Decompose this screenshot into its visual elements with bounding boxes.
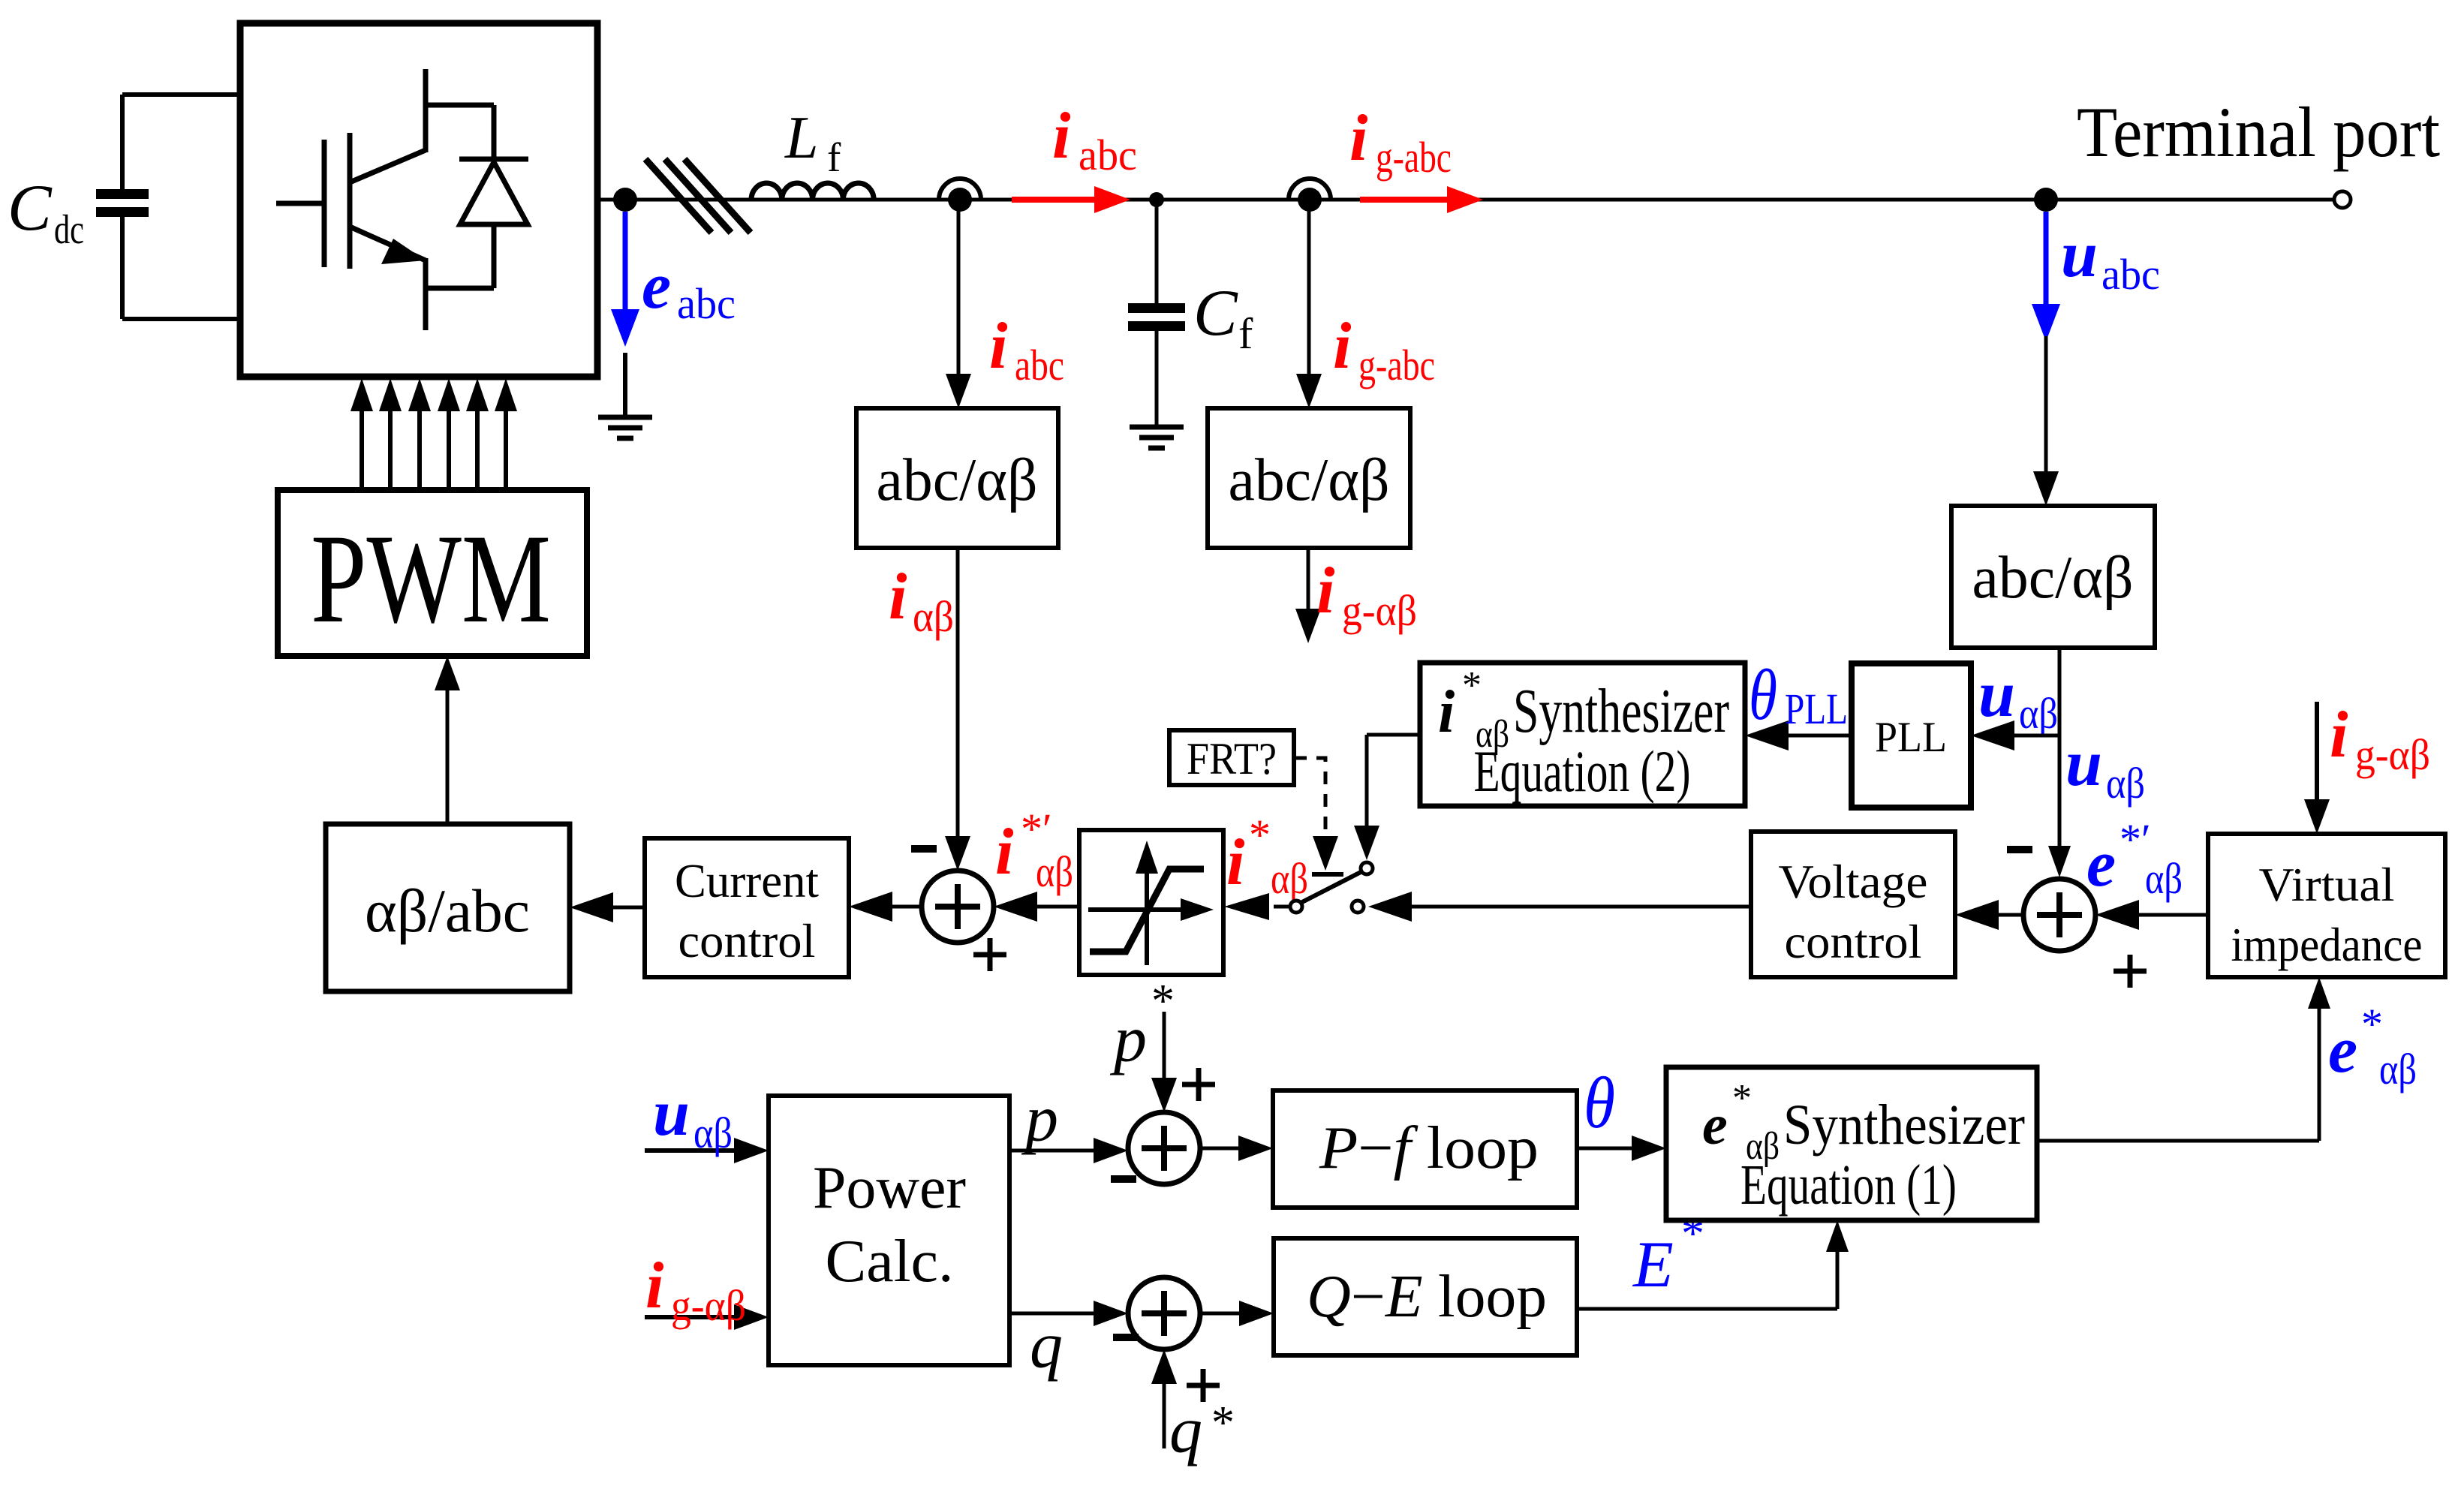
plus sign at p sum [1182, 1082, 1215, 1087]
svg-text:p: p [1109, 1003, 1147, 1076]
current sensor CT2 [1289, 179, 1331, 200]
svg-text:Calc.: Calc. [826, 1229, 954, 1295]
wire i_g-ab into Virtual impedance [2315, 702, 2319, 802]
six gate drive arrows [360, 408, 364, 490]
wire voltage sum to Voltage control [1996, 913, 2023, 917]
svg-text:e: e [1702, 1093, 1728, 1157]
svg-text:*: * [1681, 1208, 1704, 1259]
svg-text:αβ: αβ [1036, 847, 1073, 896]
wire u_abc down to abc/ab block #3 [2044, 336, 2048, 474]
wire Virtual impedance to voltage sum [2136, 913, 2208, 917]
wire E* to synthesizer (1) [1577, 1307, 1837, 1311]
svg-text:αβ: αβ [2145, 854, 2183, 903]
i_abc bus current arrow (red) [1012, 197, 1097, 203]
wire i_g-ab into Power Calc [645, 1315, 737, 1319]
svg-text:p: p [1021, 1083, 1058, 1156]
svg-text:e: e [2328, 1014, 2357, 1087]
wire p output to p sum [1009, 1149, 1097, 1153]
svg-text:P−f loop: P−f loop [1319, 1115, 1539, 1181]
svg-text:i: i [889, 561, 907, 633]
svg-text:abc: abc [2101, 250, 2160, 299]
svg-text:i: i [1438, 679, 1455, 745]
svg-text:g-αβ: g-αβ [1342, 586, 1417, 635]
svg-text:i: i [2330, 699, 2348, 772]
svg-text:PLL: PLL [1875, 714, 1947, 761]
block Power Calc. [769, 1096, 1009, 1365]
svg-text:i: i [1316, 555, 1335, 627]
svg-text:abc/αβ: abc/αβ [1229, 447, 1390, 513]
dashed FRT actuation line [1294, 758, 1325, 835]
plus sign at q sum [1187, 1383, 1220, 1388]
inductor Lf [751, 183, 874, 200]
capacitor Cf branch wire [1155, 200, 1159, 303]
terminal port open circle [2334, 191, 2351, 208]
wire limiter output to current sum [1034, 905, 1079, 909]
capacitor Cdc [122, 92, 240, 97]
block P-f loop [1273, 1090, 1577, 1208]
svg-text:impedance: impedance [2231, 919, 2423, 971]
switch lever [1301, 871, 1362, 903]
switch throw terminal right [1352, 901, 1364, 913]
svg-text:abc: abc [677, 279, 736, 328]
svg-text:u: u [2061, 218, 2098, 291]
i_g-abc bus current arrow (red) [1360, 197, 1450, 203]
block Current control [645, 838, 849, 977]
wire i_g-abc branch down from CT2 [1307, 200, 1311, 377]
svg-text:Equation (1): Equation (1) [1740, 1154, 1957, 1217]
block Virtual impedance [2208, 834, 2445, 977]
svg-text:u: u [653, 1077, 690, 1150]
wire Voltage control output to switch [1408, 905, 1751, 909]
wire theta to synthesizer (1) [1577, 1147, 1635, 1151]
wire u_ab into Power Calc [645, 1148, 737, 1153]
svg-text:Voltage: Voltage [1779, 856, 1928, 908]
svg-text:Synthesizer: Synthesizer [1783, 1093, 2025, 1157]
wire u_ab down to voltage sum [2058, 648, 2062, 846]
minus sign at q sum [1113, 1334, 1139, 1341]
svg-text:g-αβ: g-αβ [671, 1281, 746, 1330]
p summing junction [1128, 1112, 1200, 1184]
wire e*_ab to Virtual impedance [2037, 1139, 2319, 1143]
current summing junction [922, 871, 994, 943]
svg-text:Q−E loop: Q−E loop [1307, 1264, 1547, 1330]
wire q sum to Q-E loop [1200, 1312, 1242, 1316]
svg-text:*: * [1249, 811, 1271, 859]
svg-text:*: * [1732, 1077, 1752, 1120]
svg-text:αβ: αβ [1271, 854, 1308, 903]
svg-text:abc/αβ: abc/αβ [1972, 545, 2134, 611]
svg-text:abc: abc [1015, 341, 1064, 390]
block abc/ab #3 [1951, 506, 2155, 648]
junction node at Cf tap [1149, 192, 1164, 207]
voltage summing junction [2023, 879, 2095, 951]
svg-text:Synthesizer: Synthesizer [1513, 676, 1729, 746]
svg-text:g-αβ: g-αβ [2355, 730, 2430, 779]
svg-text:Terminal port: Terminal port [2077, 92, 2440, 172]
minus sign at voltage sum [2007, 846, 2032, 853]
plus sign at voltage sum [2114, 969, 2147, 974]
svg-text:*: * [1211, 1397, 1235, 1448]
FRT? block [1169, 730, 1294, 785]
wire PLL output to synthesizer (2) [1786, 734, 1852, 738]
svg-text:i: i [995, 816, 1014, 889]
wire i* synthesizer output down to switch [1367, 733, 1420, 737]
svg-text:FRT?: FRT? [1187, 734, 1277, 784]
block Voltage control [1751, 832, 1955, 977]
svg-text:i: i [1052, 100, 1071, 173]
svg-text:i: i [645, 1250, 664, 1322]
svg-text:*: * [2361, 1000, 2383, 1048]
svg-text:θ: θ [1584, 1063, 1615, 1144]
svg-text:E: E [1632, 1229, 1674, 1301]
svg-text:f: f [827, 134, 841, 180]
inverter bridge block [240, 23, 597, 377]
svg-text:f: f [1238, 309, 1253, 358]
svg-text:αβ: αβ [2019, 689, 2058, 738]
svg-text:PLL: PLL [1785, 684, 1848, 733]
switch actuator tick [1312, 872, 1343, 877]
q summing junction [1128, 1277, 1200, 1349]
block i*_ab Synthesizer Equation (2) [1420, 663, 1745, 806]
main ac bus wire [597, 198, 2334, 202]
block ab/abc [326, 824, 570, 991]
block abc/ab #2 [1208, 408, 1410, 548]
switch pole terminal left [1290, 901, 1302, 913]
svg-text:u: u [1978, 658, 2015, 731]
svg-text:αβ: αβ [2379, 1045, 2417, 1093]
svg-text:q: q [1169, 1394, 1202, 1467]
svg-text:i: i [1226, 826, 1245, 899]
q* reference arrow [1163, 1381, 1166, 1448]
svg-text:q: q [1030, 1310, 1063, 1382]
svg-text:PWM: PWM [311, 508, 551, 649]
three-phase slash marks [645, 159, 712, 233]
svg-text:*: * [1462, 664, 1482, 707]
wire ab/abc to PWM [446, 687, 450, 824]
ground symbol below e_abc [623, 353, 627, 417]
e_abc voltage arrow (blue) [623, 212, 628, 312]
block PLL [1852, 663, 1971, 808]
limiter block [1079, 830, 1223, 975]
svg-text:i: i [989, 310, 1008, 383]
svg-text:dc: dc [54, 206, 84, 252]
svg-text:Virtual: Virtual [2259, 859, 2395, 911]
svg-text:g-abc: g-abc [1358, 341, 1435, 390]
svg-text:αβ/abc: αβ/abc [365, 877, 530, 945]
svg-text:i: i [1333, 310, 1352, 383]
switch throw terminal top [1361, 862, 1373, 874]
wire p sum to P-f loop [1200, 1147, 1241, 1151]
wire i_abc branch down from CT1 [957, 200, 961, 377]
svg-text:L: L [784, 105, 819, 171]
minus sign at p sum [1111, 1175, 1136, 1183]
svg-text:Power: Power [813, 1155, 966, 1221]
wire switch pole to limiter [1274, 905, 1290, 909]
node after inverter output [613, 188, 637, 212]
svg-text:C: C [8, 172, 53, 245]
svg-text:abc/αβ: abc/αβ [877, 447, 1038, 513]
IGBT Q1 inside inverter [276, 201, 323, 206]
svg-text:control: control [1785, 916, 1922, 968]
u_abc voltage arrow (blue) [2044, 212, 2049, 307]
freewheeling diode D1 inside inverter [426, 103, 494, 108]
svg-text:abc: abc [1079, 131, 1137, 179]
svg-text:i: i [1349, 102, 1368, 175]
svg-text:αβ: αβ [913, 592, 954, 641]
wire q output to q sum [1009, 1312, 1097, 1316]
block abc/ab #1 [856, 408, 1058, 548]
PWM block [278, 490, 587, 656]
plus sign at current sum [973, 952, 1006, 958]
capacitor Cf [1128, 303, 1185, 313]
svg-text:u: u [2065, 727, 2102, 800]
saturation curve inside limiter [1145, 871, 1149, 965]
wire i_ab from block #1 to current sum [956, 548, 960, 839]
svg-text:αβ: αβ [693, 1108, 733, 1157]
block Q-E loop [1274, 1238, 1577, 1355]
svg-text:C: C [1193, 277, 1238, 350]
svg-text:e: e [2086, 828, 2116, 901]
svg-text:αβ: αβ [2106, 759, 2145, 808]
wire Current control to ab/abc [610, 906, 645, 910]
svg-text:θ: θ [1749, 654, 1777, 735]
svg-text:*: * [1151, 976, 1175, 1027]
svg-text:e: e [642, 250, 671, 323]
block e*_ab Synthesizer Equation (1) [1666, 1067, 2037, 1220]
svg-text:control: control [678, 915, 816, 967]
minus sign at current sum [911, 845, 937, 853]
svg-text:*′: *′ [1021, 805, 1052, 853]
svg-text:g-abc: g-abc [1376, 133, 1452, 182]
node at terminal voltage tap [2034, 188, 2058, 212]
wire u_ab branch into PLL [2011, 734, 2059, 738]
svg-text:Equation (2): Equation (2) [1474, 738, 1691, 804]
current sensor CT1 [939, 179, 981, 200]
wire current sum to Current control [889, 905, 922, 909]
svg-text:Current: Current [675, 855, 819, 907]
p* reference arrow [1163, 1012, 1166, 1081]
wire i_g-ab output stub from block #2 [1307, 548, 1310, 612]
ground symbol below Cf [1130, 425, 1184, 430]
